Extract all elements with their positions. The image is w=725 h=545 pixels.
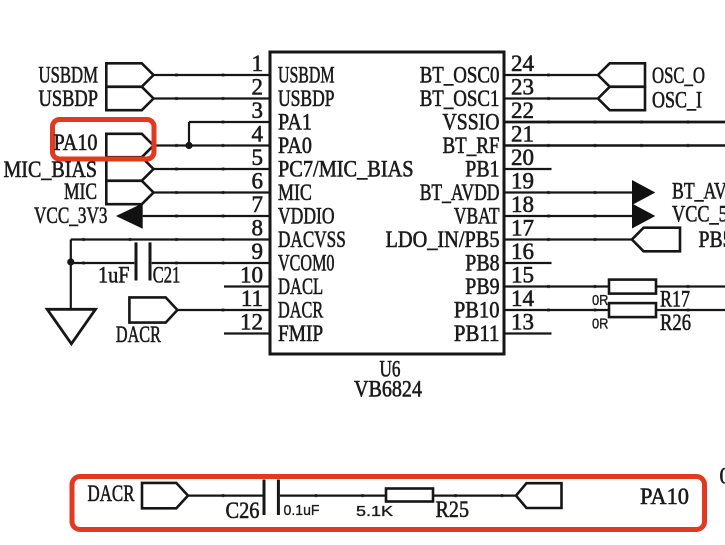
svg-text:22: 22 [511,98,534,123]
svg-text:PB8: PB8 [465,251,499,276]
svg-text:USBDP: USBDP [39,86,99,111]
svg-text:OSC_O: OSC_O [652,63,705,88]
svg-text:DACR: DACR [278,298,324,323]
svg-text:3: 3 [252,98,264,123]
svg-text:LDO_IN/PB5: LDO_IN/PB5 [386,227,500,252]
svg-text:10: 10 [240,263,263,288]
svg-text:C21: C21 [153,263,181,288]
svg-text:VCOM0: VCOM0 [278,251,335,276]
svg-text:PA10: PA10 [54,130,98,155]
svg-text:PB5: PB5 [699,227,725,252]
svg-text:R17: R17 [660,287,690,312]
svg-text:MIC: MIC [278,180,312,205]
svg-text:13: 13 [511,310,534,335]
svg-text:17: 17 [511,216,534,241]
svg-text:USBDP: USBDP [278,86,335,111]
svg-text:BT_AVDD: BT_AVDD [672,179,725,204]
svg-text:PB11: PB11 [454,321,500,346]
svg-text:16: 16 [511,239,534,264]
svg-text:VSSIO: VSSIO [443,110,500,135]
svg-text:OSC_I: OSC_I [652,88,702,113]
svg-text:PA10: PA10 [640,484,689,509]
svg-text:C26: C26 [226,498,260,523]
svg-text:12: 12 [240,310,263,335]
svg-text:19: 19 [511,169,534,194]
svg-text:R26: R26 [660,310,691,335]
svg-text:2: 2 [252,75,264,100]
svg-text:20: 20 [511,145,534,170]
svg-text:4: 4 [252,122,264,147]
svg-text:FMIP: FMIP [278,321,323,346]
svg-text:18: 18 [511,192,534,217]
svg-text:DACR: DACR [88,481,135,506]
svg-text:DACR: DACR [116,322,161,347]
svg-text:1uF: 1uF [98,263,130,288]
svg-text:BT_OSC0: BT_OSC0 [420,63,500,88]
svg-text:USBDM: USBDM [39,63,99,88]
svg-text:VB6824: VB6824 [354,377,422,402]
svg-text:8: 8 [252,216,264,241]
svg-text:14: 14 [511,286,535,311]
svg-text:11: 11 [241,286,263,311]
svg-text:PA0: PA0 [278,133,312,158]
svg-text:VDDIO: VDDIO [278,204,335,229]
svg-text:7: 7 [252,192,264,217]
svg-text:BT_AVDD: BT_AVDD [420,180,500,205]
svg-text:PB10: PB10 [454,298,500,323]
svg-text:PA1: PA1 [278,110,312,135]
svg-text:6: 6 [252,169,264,194]
svg-text:21: 21 [511,122,534,147]
svg-text:23: 23 [511,75,534,100]
svg-text:0R: 0R [592,292,609,309]
svg-text:VCC_3V3: VCC_3V3 [34,203,108,228]
svg-text:1: 1 [252,51,264,76]
svg-text:PB9: PB9 [465,274,499,299]
svg-text:MIC: MIC [64,179,97,204]
svg-text:DACVSS: DACVSS [278,227,346,252]
svg-text:24: 24 [511,51,535,76]
svg-text:5: 5 [252,145,264,170]
svg-text:R25: R25 [436,497,470,522]
svg-text:PB1: PB1 [465,157,499,182]
svg-text:PC7/MIC_BIAS: PC7/MIC_BIAS [278,157,414,182]
svg-text:0R: 0R [592,315,609,332]
svg-text:BT_OSC1: BT_OSC1 [420,86,500,111]
svg-text:VBAT: VBAT [454,204,500,229]
svg-text:0: 0 [720,464,725,489]
svg-text:DACL: DACL [278,274,323,299]
svg-text:VCC_5V: VCC_5V [672,202,725,227]
svg-text:0.1uF: 0.1uF [284,502,320,519]
svg-text:9: 9 [252,239,264,264]
svg-text:15: 15 [511,263,534,288]
svg-text:BT_RF: BT_RF [443,133,500,158]
svg-text:5.1K: 5.1K [356,503,393,520]
svg-text:USBDM: USBDM [278,63,335,88]
